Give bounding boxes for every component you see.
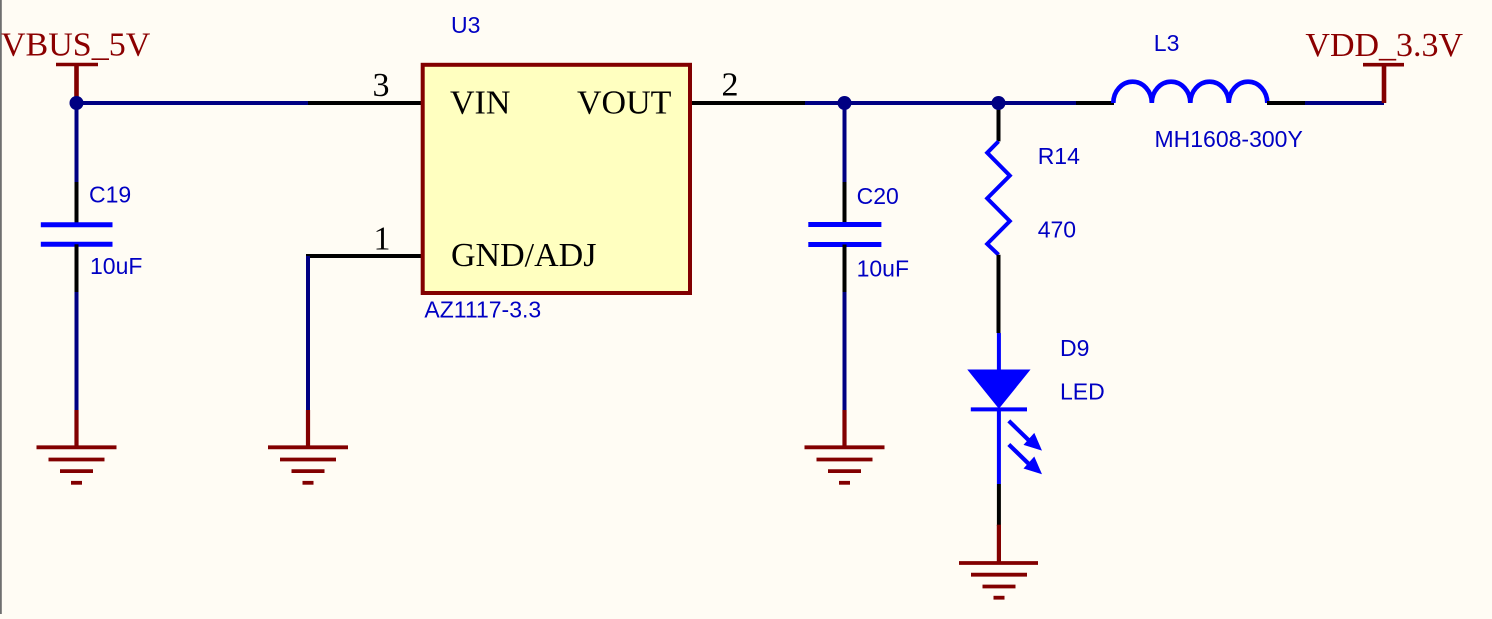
wire VBUS_5V to U3 pin 3 [77,101,309,105]
svg-text:C19: C19 [89,182,131,208]
junction node VOUT-C20 [838,96,852,110]
LED D9 [968,333,1042,484]
junction node VOUT-R14 [992,96,1006,110]
capacitor C20 [808,182,881,292]
wire D9 to ground [997,484,1001,526]
wire L3 to VDD_3.3V [1305,101,1384,105]
svg-text:VIN: VIN [450,85,510,122]
svg-text:GND/ADJ: GND/ADJ [451,237,596,274]
wire VBUS junction down to C19 [75,103,79,182]
svg-text:MH1608-300Y: MH1608-300Y [1155,126,1303,152]
capacitor C19 [41,182,113,292]
inductor L3 [1076,82,1305,103]
ground symbol (C19) [37,410,117,483]
ground symbol (D9) [959,525,1038,598]
svg-text:VBUS_5V: VBUS_5V [1,27,151,64]
wire VOUT net [805,101,1076,105]
svg-text:1: 1 [374,220,391,257]
pin 3 of U3 [308,101,421,105]
pin 2 of U3 [692,101,805,105]
wire C20 to ground [843,292,847,411]
svg-text:R14: R14 [1038,143,1080,169]
svg-text:L3: L3 [1154,30,1180,56]
svg-text:AZ1117-3.3: AZ1117-3.3 [424,297,541,323]
svg-text:3: 3 [373,67,390,104]
junction node VBUS / C19 [70,96,84,110]
pin 1 of U3 [306,254,421,258]
svg-text:C20: C20 [857,183,899,209]
ground symbol (U3 GND) [268,410,348,483]
svg-text:2: 2 [722,66,739,103]
svg-text:10uF: 10uF [857,256,909,282]
power symbol VBUS_5V [56,65,98,101]
power symbol VDD_3.3V [1363,65,1404,103]
svg-text:U3: U3 [451,12,480,38]
regulator U3 body [423,65,690,293]
ground symbol (C20) [805,410,885,483]
svg-text:VDD_3.3V: VDD_3.3V [1305,27,1463,64]
wire U3 GND pin to ground [306,256,310,411]
wire C19 to ground [75,292,79,411]
svg-text:470: 470 [1038,216,1076,242]
svg-text:10uF: 10uF [90,253,142,279]
svg-text:LED: LED [1060,379,1105,405]
wire junction down to C20 [843,103,847,182]
resistor R14 [987,103,1010,333]
svg-text:VOUT: VOUT [577,85,672,122]
svg-text:D9: D9 [1060,335,1089,361]
